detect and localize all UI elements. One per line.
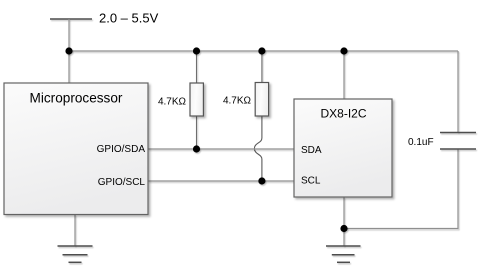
ground symbol left (58, 246, 93, 262)
capacitor C1 plates (440, 133, 476, 150)
ground symbol right (326, 246, 361, 262)
wire R1 bottom lead to SDA (196, 116, 198, 149)
wire DX8 top lead (343, 51, 345, 99)
svg-text:Microprocessor: Microprocessor (30, 91, 123, 106)
junction dot R2 SCL (258, 177, 265, 184)
junction dot R1 SDA (193, 145, 200, 152)
svg-text:SCL: SCL (301, 176, 321, 187)
wire SDA line MCU to DX8 (148, 148, 294, 150)
junction dot DX8 rail (340, 47, 347, 54)
DX8-I2C box U2 (294, 99, 392, 197)
svg-text:GPIO/SCL: GPIO/SCL (98, 177, 146, 188)
wire rail right corner down to capacitor (457, 51, 459, 133)
junction dot R2 rail (258, 47, 265, 54)
microprocessor box U1 (4, 83, 148, 215)
wire R2 top lead (261, 51, 263, 83)
wire R1 top lead (196, 51, 198, 83)
junction dot ground capacitor (340, 225, 347, 232)
junction dot R1 rail (193, 47, 200, 54)
svg-text:2.0 – 5.5V: 2.0 – 5.5V (99, 11, 159, 26)
wire power vertical to rail and MCU (68, 19, 70, 83)
svg-text:4.7KΩ: 4.7KΩ (158, 97, 187, 108)
wire MCU ground lead (74, 215, 76, 247)
resistor R2 body (255, 83, 268, 117)
svg-text:SDA: SDA (301, 145, 322, 156)
svg-text:DX8-I2C: DX8-I2C (320, 107, 366, 121)
wire top supply rail (69, 50, 458, 52)
svg-text:0.1uF: 0.1uF (408, 137, 434, 148)
resistor R1 body (190, 83, 203, 116)
power symbol bar VDD (50, 18, 92, 20)
wire SCL line MCU to DX8 (148, 180, 294, 182)
svg-text:4.7KΩ: 4.7KΩ (223, 96, 252, 107)
wire DX8 ground lead (343, 197, 345, 246)
svg-text:GPIO/SDA: GPIO/SDA (97, 144, 146, 155)
junction dot power rail left (65, 47, 72, 54)
wire R2 bottom lead with jog over SDA to SCL (254, 116, 262, 181)
wire capacitor bottom lead (344, 149, 458, 229)
